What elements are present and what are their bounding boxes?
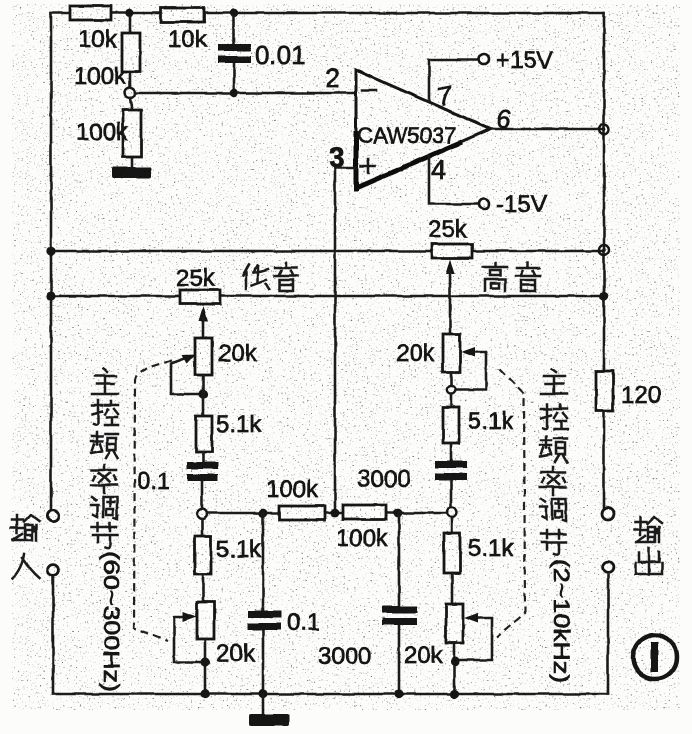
wire rail 2 xyxy=(51,295,604,298)
wire right border xyxy=(603,13,606,509)
potentiometer 25k bass (on rail 2) xyxy=(176,265,220,338)
node output at right border xyxy=(599,124,609,134)
wire bottom border xyxy=(53,693,608,696)
wiper bracket 20k bass lower xyxy=(174,612,200,662)
resistor 120 (right border) xyxy=(596,371,661,411)
potentiometer 20k treble lower xyxy=(404,604,463,669)
potentiometer 20k treble upper xyxy=(396,334,460,372)
wire left border xyxy=(50,13,53,510)
capacitor 0.01 xyxy=(218,17,306,93)
node rail1 right xyxy=(599,245,609,255)
node chain pin3 xyxy=(331,509,340,518)
wire 20k to 5.1k bass xyxy=(202,375,205,416)
resistor 100k vertical upper-left xyxy=(74,17,140,90)
resistor 100k chain left xyxy=(266,476,325,520)
label output 输出 xyxy=(634,517,662,574)
capacitor 0.1 bass xyxy=(137,452,218,509)
resistor 5.1k treble lower xyxy=(444,533,514,573)
wire rail 1 xyxy=(51,250,604,253)
node rail2 right xyxy=(599,291,608,300)
node treble bottom border xyxy=(449,689,458,698)
terminal input upper xyxy=(47,510,58,521)
node mid-left bottom border xyxy=(258,689,267,698)
resistor 5.1k bass lower xyxy=(195,536,262,574)
terminal -15V xyxy=(479,191,547,218)
node C treble bottom xyxy=(447,507,457,517)
label 主控频率调节(2~10kHz) right column xyxy=(540,369,574,683)
resistor 10k first (top left) xyxy=(70,6,118,53)
potentiometer 20k bass lower xyxy=(197,602,256,667)
potentiometer 20k bass upper xyxy=(195,338,258,375)
terminal output lower xyxy=(603,562,614,573)
wiper bracket 20k bass upper xyxy=(171,355,198,394)
wire 5.1k to 20k bass lower xyxy=(202,574,205,602)
node rail2 left xyxy=(46,291,55,300)
resistor 5.1k treble upper xyxy=(443,407,514,443)
wire node C down xyxy=(451,517,454,533)
label input 输入 xyxy=(11,515,39,578)
label 主控频率调节(60~300Hz) left column xyxy=(91,369,124,692)
node chain left xyxy=(259,509,268,518)
wire 20k to 5.1k treble xyxy=(450,372,453,407)
node treble bracket junction xyxy=(450,656,459,665)
wire node A to pin 2 xyxy=(135,92,356,95)
node junction cap top xyxy=(230,9,238,17)
resistor 100k to ground xyxy=(76,98,141,167)
node rail1 left xyxy=(46,246,55,255)
node bass bottom border xyxy=(200,689,209,698)
wire 20k bass lower to bottom xyxy=(204,639,207,694)
node B bass bottom xyxy=(197,509,207,519)
capacitor 0.1 middle (to ground rail) xyxy=(248,513,320,694)
figure number circled 1 xyxy=(633,635,677,679)
wire right lower border xyxy=(607,575,610,694)
capacitor 3000 middle xyxy=(318,513,417,694)
node A summing xyxy=(125,88,135,98)
terminal +15V xyxy=(479,47,553,74)
node bass bracket junction xyxy=(200,657,209,666)
dashed gang leader right xyxy=(497,369,525,637)
ground (top-left 100k) xyxy=(112,167,151,178)
node chain right xyxy=(394,509,403,518)
terminal input lower xyxy=(48,565,59,576)
resistor 100k chain right xyxy=(336,505,389,552)
label bass 低音 xyxy=(243,263,298,291)
potentiometer 25k treble (on rail 1) xyxy=(428,216,472,334)
wire bottom chain horizontal xyxy=(207,512,447,515)
terminal output upper xyxy=(602,508,614,520)
wire node B down xyxy=(201,519,204,536)
ground (bottom center) xyxy=(249,694,289,726)
node junction top-left xyxy=(125,9,134,18)
label treble 高音 xyxy=(483,263,540,291)
node mid-right bottom border xyxy=(394,689,403,698)
wire top border xyxy=(51,12,604,15)
wire output pin 6 xyxy=(490,128,604,131)
wire 20k treble lower to bottom xyxy=(453,643,456,694)
wire pin 7 to +15V xyxy=(429,60,478,101)
node treble mid junction xyxy=(447,386,455,394)
capacitor 3000 treble xyxy=(357,443,467,507)
wiper bracket 20k treble upper xyxy=(456,347,486,390)
dashed gang leader left xyxy=(134,361,172,641)
node junction cap to pin2 wire xyxy=(230,89,238,97)
node bass mid junction xyxy=(198,389,207,398)
wiper bracket 20k treble lower xyxy=(459,613,492,660)
wire pin 3 down xyxy=(335,167,356,170)
resistor 5.1k bass upper xyxy=(196,411,262,452)
wire pin 4 to -15V xyxy=(429,156,478,204)
wire 5.1k to 20k treble lower xyxy=(451,573,454,604)
op-amp U1 CAW5037 xyxy=(356,70,490,191)
resistor 10k second (top) xyxy=(161,8,208,53)
wire left lower border xyxy=(52,576,55,694)
